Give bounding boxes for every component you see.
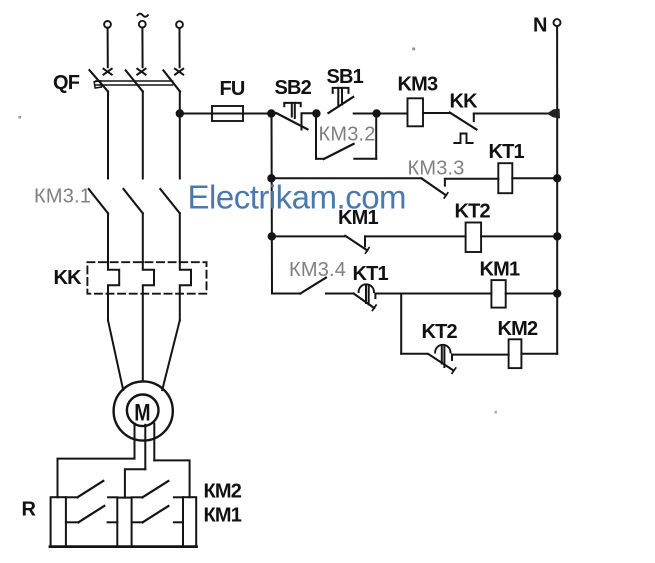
svg-text:КМ3.3: КМ3.3 (408, 158, 465, 180)
svg-text:N: N (533, 15, 547, 37)
svg-text:KT1: KT1 (489, 141, 525, 163)
svg-text:KK: KK (54, 267, 83, 289)
svg-text:KT2: KT2 (455, 201, 491, 223)
svg-text:КМ2: КМ2 (204, 481, 242, 503)
svg-text:R: R (22, 499, 37, 521)
svg-text:SB2: SB2 (275, 77, 312, 99)
svg-text:КМ3.4: КМ3.4 (289, 259, 346, 281)
svg-text:КМ3.2: КМ3.2 (319, 124, 376, 146)
svg-text:KM2: KM2 (498, 318, 539, 340)
svg-text:Electrikam.com: Electrikam.com (188, 179, 407, 216)
svg-text:КМ3.1: КМ3.1 (34, 186, 91, 208)
svg-text:KM3: KM3 (398, 74, 439, 96)
svg-text:FU: FU (220, 78, 245, 100)
svg-text:KT2: KT2 (422, 321, 458, 343)
svg-text:KT1: KT1 (353, 263, 389, 285)
svg-text:SB1: SB1 (327, 66, 364, 88)
svg-text:QF: QF (53, 72, 80, 94)
svg-text:KM1: KM1 (480, 258, 521, 280)
svg-text:КМ1: КМ1 (204, 505, 242, 527)
svg-text:М: М (134, 399, 150, 426)
svg-text:KK: KK (450, 91, 479, 113)
